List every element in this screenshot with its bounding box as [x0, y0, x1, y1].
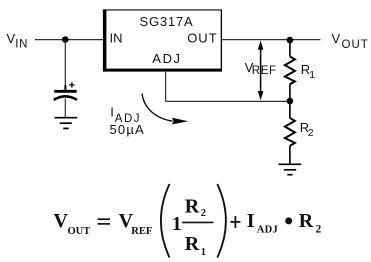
ground (below capacitor) — [54, 118, 77, 129]
svg-text:2: 2 — [201, 208, 206, 219]
equation right parenthesis — [217, 184, 226, 258]
svg-text:1: 1 — [172, 213, 182, 235]
op-amp/regulator U1 SG317A box — [103, 9, 222, 71]
svg-text:SG317A: SG317A — [140, 14, 194, 29]
equation VOUT term — [54, 210, 91, 237]
svg-text:I: I — [110, 105, 114, 120]
equation fraction numerator R2 — [185, 196, 206, 220]
svg-text:50µA: 50µA — [110, 122, 145, 137]
svg-text:R: R — [185, 233, 200, 255]
svg-text:ADJ: ADJ — [152, 51, 181, 66]
svg-text:I: I — [247, 210, 255, 232]
svg-text:OUT: OUT — [342, 39, 369, 51]
capacitor C1 (polarized input cap) — [54, 82, 77, 100]
svg-text:1: 1 — [201, 247, 206, 258]
svg-text:IN: IN — [15, 39, 28, 51]
svg-text:OUT: OUT — [187, 30, 217, 45]
wire ADJ horizontal to node C — [166, 100, 290, 102]
svg-text:V: V — [7, 31, 16, 46]
node VIN label — [7, 31, 29, 51]
equation multiply dot — [285, 217, 292, 224]
label IADJ — [110, 105, 141, 126]
junction node A (input) — [62, 36, 69, 43]
equation plus sign — [230, 216, 240, 228]
resistor R1 — [285, 40, 295, 101]
junction node C (ADJ) — [287, 98, 294, 105]
junction node B (output) — [287, 37, 294, 44]
svg-text:REF: REF — [252, 65, 277, 77]
svg-text:2: 2 — [316, 224, 322, 236]
equation R2 term — [299, 210, 322, 236]
svg-text:V: V — [54, 210, 69, 232]
svg-text:R: R — [299, 210, 314, 232]
svg-text:V: V — [332, 31, 341, 46]
svg-text:REF: REF — [131, 226, 152, 237]
label VREF — [245, 60, 277, 77]
svg-text:2: 2 — [308, 127, 314, 139]
annotation arrow IADJ (curved) — [142, 94, 188, 125]
equation equals sign — [98, 219, 110, 224]
wire capacitor to ground — [64, 99, 66, 118]
wire OUT pin to VOUT — [222, 39, 321, 41]
wire VIN to regulator IN pin — [35, 39, 103, 41]
equation fraction denominator R1 — [185, 233, 206, 258]
ground (below R2) — [279, 164, 302, 174]
node VOUT label — [332, 31, 369, 51]
equation IADJ term — [247, 210, 278, 236]
wire ADJ pin down — [165, 72, 167, 102]
label R2 — [300, 120, 314, 139]
svg-text:ADJ: ADJ — [257, 224, 278, 235]
equation left parenthesis — [161, 184, 170, 258]
label R1 — [301, 62, 316, 81]
resistor R2 — [285, 101, 295, 164]
equation fraction bar — [182, 221, 214, 223]
svg-text:1: 1 — [309, 69, 315, 81]
wire node A down to capacitor — [64, 40, 66, 90]
equation VREF term — [119, 210, 153, 237]
annotation arrow VREF (double-headed) — [258, 41, 264, 101]
svg-text:R: R — [185, 196, 200, 218]
svg-text:OUT: OUT — [68, 226, 91, 237]
svg-text:IN: IN — [110, 30, 123, 45]
